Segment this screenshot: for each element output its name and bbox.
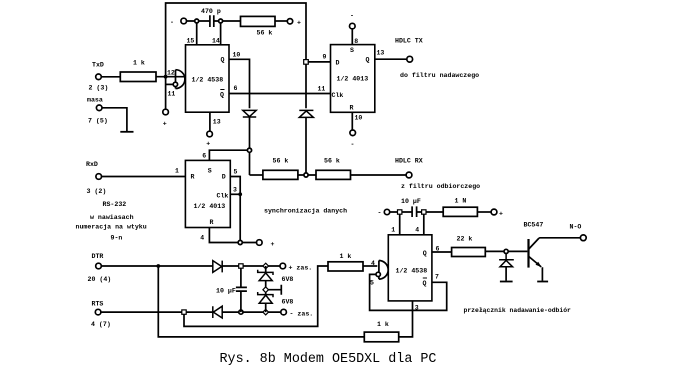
svg-text:+ zas.: + zas. [289, 265, 313, 272]
wire pin11 [166, 83, 174, 85]
svg-text:470 p: 470 p [201, 8, 221, 15]
node junction zener mid [263, 287, 269, 293]
wire pin13 Q out [375, 58, 407, 60]
wire D1 to node [249, 117, 251, 175]
zener Z1 6V8 (cathode up) [258, 270, 273, 275]
wire pin8 S [351, 29, 353, 45]
svg-text:1: 1 [175, 168, 179, 175]
IC U2 1/2 4013 [331, 45, 375, 113]
svg-text:numeracja na wtyku: numeracja na wtyku [76, 224, 147, 231]
IC U1 1/2 4538 [186, 45, 230, 112]
terminal - (S) [350, 23, 356, 29]
svg-text:Clk: Clk [332, 92, 344, 99]
svg-text:4: 4 [415, 227, 419, 234]
wire R8 to base [485, 250, 527, 252]
svg-text:1/2 4538: 1/2 4538 [396, 268, 428, 275]
svg-text:DTR: DTR [92, 253, 104, 260]
svg-text:z filtru odbiorczego: z filtru odbiorczego [401, 183, 480, 190]
svg-text:N-O: N-O [570, 224, 582, 231]
svg-text:Q: Q [423, 250, 427, 257]
wire DTR rail [101, 265, 213, 267]
svg-text:1 k: 1 k [377, 321, 389, 328]
svg-text:1 N: 1 N [455, 198, 467, 205]
svg-text:do filtru nadawczego: do filtru nadawczego [400, 72, 479, 79]
svg-text:10 µF: 10 µF [216, 288, 236, 295]
wire R6 to pin3 [399, 301, 413, 337]
svg-text:6V8: 6V8 [282, 276, 294, 283]
wire masa to ground [102, 108, 127, 132]
terminal TxD [96, 74, 102, 80]
svg-text:RS-232: RS-232 [103, 201, 127, 208]
svg-text:D: D [336, 60, 340, 67]
svg-text:13: 13 [377, 50, 385, 57]
terminal RTS [95, 309, 101, 315]
svg-text:6: 6 [202, 153, 206, 160]
svg-text:1/2 4538: 1/2 4538 [192, 77, 224, 84]
op-amp gate U1 inputs (4538 trigger gate) [176, 70, 185, 89]
svg-text:4: 4 [200, 235, 204, 242]
svg-text:4 (7): 4 (7) [91, 321, 111, 328]
svg-text:1/2 4013: 1/2 4013 [337, 76, 369, 83]
node junction 56k mid [304, 173, 308, 177]
ground (emitter) [537, 281, 548, 283]
svg-text:TxD: TxD [92, 62, 104, 69]
terminal + (R2 right) [287, 19, 292, 24]
zener Z2 6V8 (cathode up) [258, 292, 273, 297]
svg-text:10 µF: 10 µF [401, 198, 421, 205]
wire TxD to R1 [101, 76, 120, 78]
capacitor C2 10uF [236, 268, 247, 312]
capacitor C3 10uF [412, 206, 417, 217]
wire R7 to + [477, 211, 491, 213]
svg-text:1/2 4013: 1/2 4013 [194, 203, 226, 210]
svg-text:5: 5 [234, 169, 238, 176]
wire D3 to +zas [222, 265, 280, 267]
diode D1 (cathode down) [243, 110, 256, 117]
terminal + (pin13) [207, 131, 213, 137]
svg-text:6V8: 6V8 [282, 298, 294, 305]
svg-text:14: 14 [212, 38, 220, 45]
svg-text:3 (2): 3 (2) [87, 188, 107, 195]
wire: top feedback loop [166, 3, 306, 109]
svg-text:S: S [350, 47, 354, 54]
svg-text:7: 7 [435, 274, 439, 281]
wire pin14 [220, 21, 222, 45]
svg-text:+: + [271, 241, 275, 248]
terminal + (pin11/12 pull) [163, 109, 169, 115]
svg-text:13: 13 [213, 119, 221, 126]
node junction bottom [238, 240, 242, 244]
svg-text:56 k: 56 k [324, 158, 340, 165]
svg-text:20 (4): 20 (4) [88, 276, 112, 283]
svg-text:HDLC RX: HDLC RX [395, 158, 423, 165]
svg-text:2 (3): 2 (3) [89, 85, 109, 92]
svg-text:8: 8 [354, 38, 358, 45]
wire pin4 top [423, 212, 425, 235]
svg-text:RTS: RTS [92, 301, 104, 308]
svg-text:D: D [222, 174, 226, 181]
svg-text:10: 10 [355, 115, 363, 122]
node junction zener bottom [263, 309, 269, 315]
wire RTS rail [101, 311, 213, 313]
terminal - (470p row) [181, 18, 187, 24]
node junction cap bottom [239, 310, 243, 314]
svg-text:Q: Q [423, 280, 427, 287]
terminal HDLC RX [406, 172, 412, 178]
svg-text:+: + [499, 211, 503, 218]
wire pin6 S [209, 150, 247, 160]
terminal - zas [281, 309, 287, 315]
wire R4 to HDLC RX [351, 174, 407, 176]
svg-text:R: R [191, 174, 195, 181]
diode D4 (points left) [213, 306, 222, 318]
svg-text:9-n: 9-n [111, 235, 123, 242]
svg-text:BC547: BC547 [524, 222, 544, 229]
wire D2 to 56k row [305, 117, 307, 175]
svg-text:przełącznik nadawanie-odbiór: przełącznik nadawanie-odbiór [464, 307, 572, 314]
svg-text:1: 1 [391, 227, 395, 234]
terminal DTR [96, 263, 102, 269]
terminal + (pin4 row) [257, 240, 263, 246]
wire pin1 [399, 212, 401, 235]
svg-text:Clk: Clk [217, 193, 229, 200]
node pin14 junction [219, 19, 223, 23]
node junction D-Clk [238, 192, 242, 196]
resistor R5 1k [328, 262, 363, 271]
svg-text:15: 15 [187, 38, 195, 45]
svg-text:R: R [350, 105, 354, 112]
node junction zener top [263, 263, 269, 269]
wire D4 to -zas [222, 311, 281, 313]
svg-text:+: + [297, 20, 301, 27]
svg-text:12: 12 [167, 70, 175, 77]
terminal - (10uF row) [384, 209, 389, 214]
wire C1 to R2 [214, 20, 241, 22]
wire Qbar pin6 to Clk [229, 93, 331, 95]
wire pin3 Clk [230, 193, 240, 195]
wire pin10 R [351, 112, 353, 130]
node junction pin1 [398, 210, 402, 214]
node junction DTR [156, 264, 160, 268]
wire pin5 D [230, 177, 240, 241]
wire R5 to gate pin4 [363, 265, 377, 267]
resistor R2 56k [241, 16, 276, 26]
wire C3 to R7 [417, 211, 444, 213]
svg-text:3: 3 [415, 305, 419, 312]
svg-text:HDLC TX: HDLC TX [395, 38, 423, 45]
svg-text:Q: Q [221, 57, 225, 64]
wire zener mid stub [268, 285, 281, 295]
resistor R8 22k [452, 248, 486, 257]
svg-text:Q: Q [220, 92, 224, 99]
wire pin13 [209, 112, 211, 131]
svg-text:-: - [351, 141, 355, 148]
svg-text:5: 5 [370, 280, 374, 287]
svg-text:-: - [350, 13, 354, 20]
wire D5 to ground [505, 267, 507, 281]
svg-text:56 k: 56 k [273, 158, 289, 165]
svg-text:9: 9 [323, 54, 327, 61]
resistor R7 1N [443, 207, 477, 216]
terminal masa [96, 105, 102, 111]
svg-text:masa: masa [87, 97, 103, 104]
svg-text:RxD: RxD [86, 161, 98, 168]
wire pin5 feedback [370, 274, 447, 310]
svg-text:3: 3 [233, 187, 237, 194]
resistor R3 56k [263, 170, 298, 179]
svg-text:22 k: 22 k [457, 236, 473, 243]
diode D5 (cathode up) [499, 254, 514, 267]
svg-text:6: 6 [234, 85, 238, 92]
op-amp gate U4 inputs (4538 trigger gate) [379, 261, 388, 280]
terminal RxD [96, 174, 102, 180]
wire R2 to + [275, 20, 287, 22]
wire R3 left [250, 174, 263, 176]
svg-text:1 k: 1 k [340, 253, 352, 260]
svg-text:11: 11 [318, 86, 326, 93]
node: junction pin12 [164, 75, 168, 79]
ground (D5) [500, 281, 513, 283]
svg-text:R: R [210, 219, 214, 226]
node pin15 junction [195, 19, 199, 23]
wire R3 to R4 [298, 174, 316, 176]
transistor Q1 BC547 [527, 239, 529, 268]
wire pin15 [196, 21, 198, 45]
svg-text:S: S [208, 168, 212, 175]
svg-text:6: 6 [436, 246, 440, 253]
diode D2 (cathode up) [299, 110, 313, 117]
resistor R4 56k [316, 170, 351, 179]
terminal - (R) [350, 130, 356, 136]
svg-text:w nawiasach: w nawiasach [90, 214, 134, 221]
terminal HDLC TX [407, 56, 413, 62]
terminal + zas [280, 263, 286, 269]
node junction pin4 [422, 210, 426, 214]
svg-text:7 (5): 7 (5) [88, 118, 108, 125]
resistor R1 1k [120, 72, 156, 82]
svg-text:-: - [170, 19, 174, 26]
wire - to C3 [390, 211, 412, 213]
diode D3 (points right) [213, 261, 222, 273]
IC U3 1/2 4013 [185, 160, 230, 227]
wire pin9 D [308, 61, 331, 63]
IC U4 1/2 4538 [388, 235, 432, 301]
wire RxD to pin1 R [102, 176, 186, 178]
ground (masa) [120, 131, 133, 133]
svg-text:Rys. 8b Modem OE5DXL dla PC: Rys. 8b Modem OE5DXL dla PC [220, 352, 437, 367]
node junction RTS tap [182, 310, 186, 314]
node junction D input tap [304, 60, 309, 65]
wire Q pin10 [229, 59, 250, 108]
wire - to C1 [187, 20, 210, 22]
terminal N-O [580, 235, 586, 241]
svg-text:+: + [163, 121, 167, 128]
svg-text:56 k: 56 k [257, 30, 273, 37]
svg-text:+: + [206, 141, 210, 148]
resistor R6 1k [364, 332, 398, 342]
wire RTS tap to R5 [184, 266, 328, 326]
svg-text:4: 4 [371, 260, 375, 267]
node junction base [504, 249, 508, 253]
svg-text:Q: Q [366, 57, 370, 64]
wire R1 to pin12 [156, 76, 184, 78]
svg-text:- zas.: - zas. [290, 311, 314, 318]
node junction D1/S [247, 148, 251, 152]
wire pin4 R bottom [209, 228, 256, 243]
svg-text:11: 11 [168, 91, 176, 98]
wire DTR down to bottom rail [158, 266, 364, 337]
svg-text:1 k: 1 k [133, 60, 145, 67]
svg-text:synchronizacja danych: synchronizacja danych [264, 208, 347, 215]
svg-text:-: - [378, 210, 382, 217]
capacitor C1 470p [210, 15, 214, 27]
terminal + (R7) [491, 209, 497, 215]
node junction cap top [239, 264, 243, 268]
wire pin6 Q to R8 [432, 251, 452, 253]
svg-text:10: 10 [233, 52, 241, 59]
